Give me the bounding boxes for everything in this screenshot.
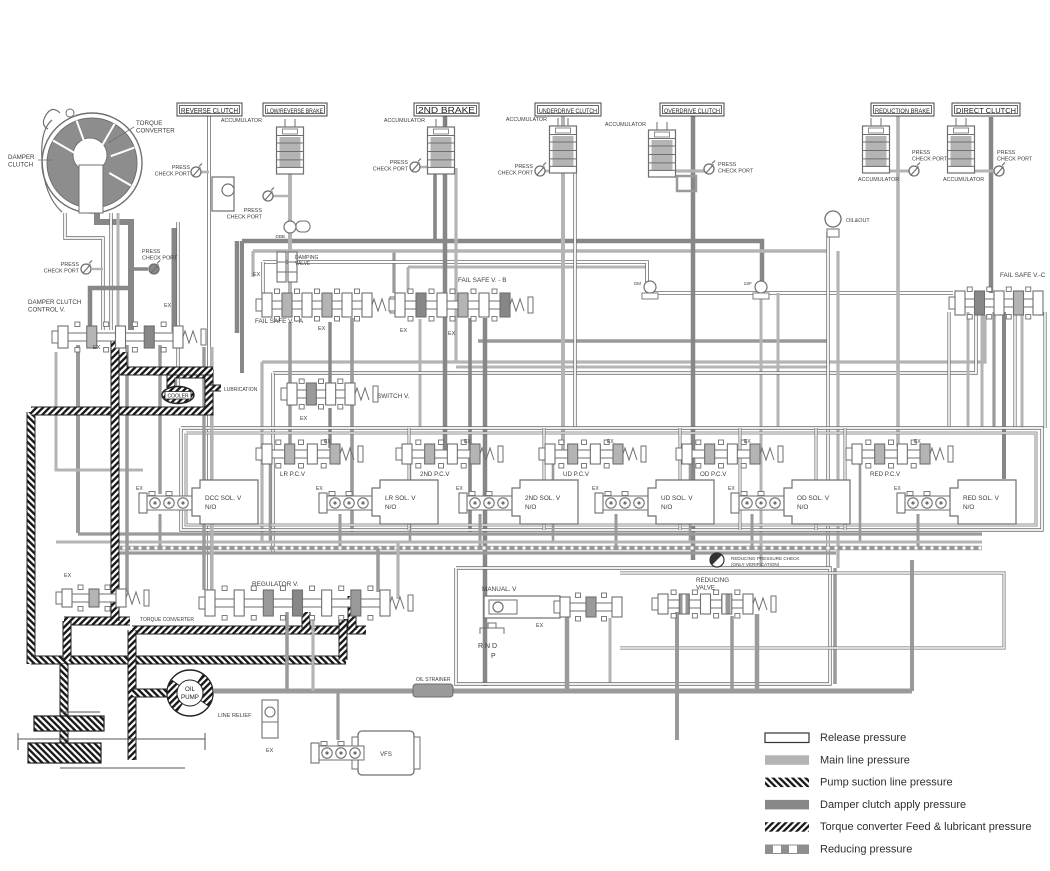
wire fsB drop x470 (468, 318, 472, 532)
svg-text:OD P.C.V: OD P.C.V (700, 471, 727, 478)
wire right riser x912 (910, 560, 914, 691)
svg-text:ACCUMULATOR: ACCUMULATOR (858, 177, 899, 183)
manual valve detent RNDP (480, 623, 504, 634)
svg-text:OVERDRIVE CLUTCH: OVERDRIVE CLUTCH (664, 109, 720, 115)
svg-text:2ND BRAKE: 2ND BRAKE (418, 105, 475, 115)
wire main bus corner x253 (251, 251, 254, 277)
svg-text:P: P (491, 653, 496, 660)
wire fsB inlet x394 (392, 251, 395, 293)
wire tc release elbow x103 (65, 213, 103, 330)
label ex manual (536, 623, 544, 629)
wire vfs drop x677 (675, 612, 679, 740)
label accumulator ud (506, 117, 547, 123)
wire release corner y362 (262, 315, 985, 362)
wire frame right x1045 (1043, 312, 1046, 428)
label ex DCC sol (136, 486, 143, 492)
label regulator v (252, 581, 299, 588)
label accumulator 2nd (384, 118, 425, 124)
svg-text:PRESS: PRESS (718, 162, 737, 168)
pipe feed vertical x132 (128, 630, 137, 760)
wire manual feed x567 (565, 616, 570, 691)
pipe feed column x115 (111, 333, 120, 621)
pipe feed valve elbow x123 (123, 352, 213, 371)
label ex LR pcv (324, 439, 331, 445)
svg-text:CHECK PORT: CHECK PORT (912, 157, 948, 163)
wire pcv divider x845 (844, 428, 847, 530)
svg-text:PRESS: PRESS (142, 249, 161, 255)
svg-text:ACCUMULATOR: ACCUMULATOR (605, 122, 646, 128)
pipe feed regulator col x352 (348, 596, 357, 630)
svg-text:VALVE: VALVE (295, 261, 311, 267)
svg-text:1SF: 1SF (744, 281, 753, 286)
svg-text:TORQUE: TORQUE (136, 120, 162, 127)
DCC solenoid body (192, 480, 258, 524)
svg-text:EX: EX (164, 303, 172, 309)
wire dcc ex line x56 (56, 352, 143, 470)
label switch v (377, 393, 410, 400)
wire dir acc tie y171 (961, 168, 999, 171)
svg-text:Damper clutch apply pressure: Damper clutch apply pressure (820, 799, 966, 811)
svg-text:LUBRICATION: LUBRICATION (224, 387, 258, 393)
pipe feed band A y630 (132, 626, 366, 635)
svg-text:2ND SOL. V: 2ND SOL. V (525, 495, 561, 502)
wire manual drop x610 (609, 618, 612, 684)
svg-text:LOW/REVERSE BRAKE: LOW/REVERSE BRAKE (267, 109, 323, 115)
label on right (744, 281, 753, 286)
pipe suction band B y660 (31, 656, 346, 665)
box underdrive clutch (535, 103, 601, 116)
wire reducing feed x757b (755, 614, 760, 691)
label accumulator dir (943, 177, 984, 183)
svg-text:N/O: N/O (963, 504, 974, 511)
legend reduce (765, 844, 912, 856)
wire dccv drop x212 (210, 347, 213, 590)
wire solenoid riser x480 (479, 514, 482, 548)
wire bus y542 (56, 541, 982, 544)
wire switch to pcv x330b (328, 408, 331, 448)
wire ud port tie (540, 170, 563, 173)
legend damper (765, 799, 966, 811)
legend main (765, 754, 910, 766)
wire 2nd brake feed x445 (443, 116, 448, 450)
UD solenoid body (648, 480, 714, 524)
wire pcv region frame (181, 428, 1042, 530)
svg-text:REDUCING: REDUCING (696, 577, 729, 584)
box low reverse brake (263, 103, 327, 116)
wire pcv divider x740 (739, 428, 742, 530)
RED solenoid coil (897, 492, 950, 514)
wire release corner x262 (260, 362, 263, 542)
oil strainer inline (413, 684, 453, 697)
ball check dbb (284, 221, 310, 233)
svg-text:UD SOL. V: UD SOL. V (661, 495, 693, 502)
wire pcv divider x816 (815, 428, 818, 530)
label 2ND pcv (420, 471, 450, 478)
wire ud release x575 (573, 173, 576, 428)
wire light y367 (456, 366, 828, 369)
svg-text:(ONLY VERIFICATION): (ONLY VERIFICATION) (731, 562, 780, 567)
legend suction (765, 777, 953, 789)
svg-text:Reducing pressure: Reducing pressure (820, 844, 912, 856)
svg-text:N/O: N/O (385, 504, 396, 511)
press check port ud (535, 163, 546, 177)
wire right riser x835 (833, 568, 837, 684)
label ex UD pcv (607, 439, 614, 445)
wire dark bus corner x237 (235, 241, 240, 333)
svg-text:ACCUMULATOR: ACCUMULATOR (384, 118, 425, 124)
svg-text:EX: EX (914, 439, 921, 445)
svg-text:GM: GM (634, 281, 642, 286)
2ND solenoid body (512, 480, 578, 524)
manual valve spool (554, 593, 622, 621)
svg-text:LINE RELIEF: LINE RELIEF (218, 713, 252, 719)
press check port red (909, 163, 920, 177)
svg-text:DIRECT CLUTCH: DIRECT CLUTCH (956, 106, 1016, 115)
wire oil-out drop x838 (836, 251, 839, 568)
svg-text:EX: EX (536, 623, 544, 629)
svg-text:DAMPING: DAMPING (295, 255, 318, 261)
wire oil-out drop x828 (826, 232, 829, 568)
svg-text:CHECK PORT: CHECK PORT (373, 167, 409, 173)
label ex OD sol (728, 486, 735, 492)
svg-text:CHECK PORT: CHECK PORT (718, 169, 754, 175)
label damper clutch control v (28, 299, 81, 313)
label ex fsA (253, 272, 261, 278)
pipe suction left vertical (27, 412, 36, 664)
wire fsC drop x1004 (1002, 312, 1006, 479)
wire pcv region inner frame (186, 433, 1036, 525)
wire od acc branch y171 (662, 168, 709, 171)
regulator valve (199, 586, 413, 620)
svg-text:CHECK PORT: CHECK PORT (155, 172, 191, 178)
svg-text:N/O: N/O (525, 504, 536, 511)
pipe feed regulator col x343 (339, 619, 348, 660)
wire pcv drop x553 (552, 464, 555, 542)
svg-text:EX: EX (253, 272, 261, 278)
svg-text:EX: EX (464, 439, 471, 445)
OD pressure control valve (676, 440, 783, 468)
wire tc port stub (131, 267, 148, 271)
wire damper apply bus y241 (242, 241, 762, 293)
wire switch drop x330 (328, 322, 331, 385)
wire tc release x111 (109, 213, 112, 330)
svg-text:Pump suction line pressure: Pump suction line pressure (820, 777, 953, 789)
accumulator reduction (863, 118, 890, 173)
svg-text:DCC SOL. V: DCC SOL. V (205, 495, 242, 502)
wire fsC drop x1015 (1013, 312, 1016, 428)
svg-text:REVERSE CLUTCH: REVERSE CLUTCH (181, 108, 238, 115)
wire dccv drop x78 (76, 345, 80, 533)
LR solenoid coil (319, 492, 372, 514)
press check port 2nd (410, 159, 421, 173)
damping valve (277, 252, 297, 282)
oil strainer body (18, 712, 205, 768)
wire fsA drop x352 (350, 318, 354, 532)
wire dark loop x90 (90, 288, 131, 328)
label LR pcv (280, 471, 306, 478)
svg-text:CONVERTER: CONVERTER (136, 127, 175, 134)
svg-text:RED P.C.V: RED P.C.V (870, 471, 901, 478)
label ex fsB2 (448, 331, 456, 337)
wire regulator drop x287 (285, 612, 289, 691)
svg-text:EX: EX (592, 486, 599, 492)
LR pressure control valve (256, 440, 363, 468)
label fail safe C (1000, 272, 1046, 279)
wire fsB drop x485 (483, 318, 488, 686)
wire pcv drop x270 (269, 464, 272, 542)
label ex 2ND pcv (464, 439, 471, 445)
wire cooler feed x178 (176, 222, 179, 387)
svg-text:TORQUE CONVERTER: TORQUE CONVERTER (140, 617, 194, 623)
svg-text:PRESS: PRESS (172, 165, 191, 171)
OD solenoid coil (731, 492, 784, 514)
box direct clutch (952, 103, 1020, 116)
pipe suction strainer riser (60, 664, 69, 745)
svg-text:N/O: N/O (661, 504, 672, 511)
wire pcv divider x544 (543, 428, 546, 530)
label press check port 2nd (373, 160, 409, 173)
label oil out (846, 218, 870, 224)
wire regulator feed x398 (396, 542, 399, 599)
damper clutch control valve (52, 322, 206, 352)
svg-text:2ND P.C.V: 2ND P.C.V (420, 471, 450, 478)
wire manual region frame (456, 568, 830, 684)
wire release bus y262 (263, 262, 647, 288)
svg-text:SWITCH V.: SWITCH V. (377, 393, 410, 400)
svg-text:OIL: OIL (185, 686, 196, 693)
svg-text:ACCUMULATOR: ACCUMULATOR (943, 177, 984, 183)
pipe lubrication stub (209, 385, 221, 392)
svg-text:LR SOL. V: LR SOL. V (385, 495, 416, 502)
svg-text:CHECK PORT: CHECK PORT (997, 157, 1033, 163)
wire dccv drop x160 (158, 345, 161, 494)
fail safe valve C (949, 287, 1043, 319)
DCC solenoid coil (139, 492, 192, 514)
svg-text:FAIL SAFE V. - A: FAIL SAFE V. - A (255, 318, 304, 325)
wire release x273 (271, 373, 274, 553)
wire fsA drop x290 (288, 322, 292, 445)
2ND solenoid coil (459, 492, 512, 514)
oil out symbol (825, 211, 841, 237)
label damper clutch (8, 154, 35, 168)
wire damper link y341 (478, 339, 828, 343)
svg-text:PRESS: PRESS (61, 262, 80, 268)
label press check port od (718, 162, 754, 175)
wire tc light x118 (117, 213, 120, 330)
label ex LR sol (316, 486, 323, 492)
label ex line relief (266, 748, 274, 754)
OD solenoid body (784, 480, 850, 524)
wire fsC drop x982 (981, 312, 984, 428)
ball check ON left (642, 281, 658, 299)
wire pcv divider x409 (408, 428, 411, 530)
torque converter (42, 109, 142, 213)
RED solenoid body (950, 480, 1016, 524)
label press check port lr (227, 208, 263, 221)
svg-text:COOLER: COOLER (167, 394, 189, 400)
2ND pressure control valve (396, 440, 503, 468)
manual valve body (484, 596, 560, 618)
wire pcv drop x690 (689, 464, 692, 542)
wire regulator drop x313 (311, 619, 314, 691)
UD solenoid coil (595, 492, 648, 514)
wire dccv drop x127 (125, 345, 129, 592)
svg-text:EX: EX (744, 439, 751, 445)
svg-text:EX: EX (894, 486, 901, 492)
label press check port tc left (44, 262, 80, 275)
label ex dcc2 (93, 345, 101, 351)
converter relief valve (56, 585, 149, 611)
wire reducing drop x732 (730, 616, 734, 691)
wire 2nd brake rel x456 (454, 168, 457, 361)
svg-text:N/O: N/O (797, 504, 808, 511)
press check port dir (994, 163, 1005, 177)
check valve reverse line (212, 177, 234, 211)
svg-text:LR P.C.V: LR P.C.V (280, 471, 306, 478)
wire fsC drop x949 (947, 312, 950, 428)
wire tc apply dark2 (172, 228, 177, 332)
svg-text:PRESS: PRESS (912, 150, 931, 156)
wire pcv drop x860 (859, 464, 862, 542)
wire od sol feed x778 (777, 293, 780, 428)
wire direct feed x991 (989, 117, 994, 293)
wire fsC drop x994 (992, 312, 995, 428)
wire bus y534 (78, 532, 982, 535)
label fail safe B (458, 277, 507, 284)
svg-text:Torque converter Feed & lubric: Torque converter Feed & lubricant pressu… (820, 821, 1032, 833)
svg-text:UNDERDRIVE CLUTCH: UNDERDRIVE CLUTCH (539, 109, 597, 115)
wire fsC drop x968 (967, 312, 970, 428)
vfs solenoid (352, 731, 420, 775)
label press check port reverse (155, 165, 191, 178)
press check port tc dark (149, 261, 160, 275)
svg-text:OD SOL. V: OD SOL. V (797, 495, 830, 502)
wire bus y553 (115, 551, 836, 554)
label reducing pressure check (731, 556, 800, 567)
svg-text:MANUAL. V: MANUAL. V (482, 586, 517, 593)
wire 2nd acc branch x435 (433, 172, 437, 241)
LR solenoid body (372, 480, 438, 524)
svg-text:FAIL SAFE V.-C: FAIL SAFE V.-C (1000, 272, 1046, 279)
wire solenoid riser x616 (615, 514, 618, 548)
label ex RED pcv (914, 439, 921, 445)
wire reducing bus y548 (120, 546, 982, 551)
svg-text:Main line pressure: Main line pressure (820, 754, 910, 766)
label press check port tc2 (142, 249, 178, 262)
svg-text:EX: EX (64, 573, 72, 579)
svg-text:EX: EX (607, 439, 614, 445)
press check port od (704, 161, 715, 175)
wire main line from pump y691 (214, 689, 912, 694)
line relief valve (262, 700, 278, 738)
svg-text:CONTROL V.: CONTROL V. (28, 306, 65, 313)
wire release line to fail safe C y293 (645, 291, 953, 295)
svg-text:REDUCING PRESSURE CHECK: REDUCING PRESSURE CHECK (731, 556, 800, 561)
wire vfs riser x338 (336, 691, 339, 740)
wire pcv divider x680 (679, 428, 682, 530)
svg-text:RED SOL. V: RED SOL. V (963, 495, 1000, 502)
label ex OD pcv (744, 439, 751, 445)
svg-text:ACCUMULATOR: ACCUMULATOR (506, 117, 547, 123)
wire release y373 (273, 315, 976, 373)
svg-text:EX: EX (316, 486, 323, 492)
svg-text:EX: EX (93, 345, 101, 351)
label torque converter (136, 120, 175, 134)
label accumulator lr (221, 118, 262, 124)
svg-text:VALVE: VALVE (696, 584, 715, 591)
wire damper bus corner x242 (240, 241, 244, 373)
wire solenoid riser x918 (917, 514, 920, 548)
svg-text:EX: EX (456, 486, 463, 492)
svg-text:EX: EX (400, 328, 408, 334)
accumulator direct (948, 118, 975, 173)
wire 2nd port tie (415, 166, 445, 169)
wire pcv drop x410 (409, 464, 412, 542)
svg-text:PRESS: PRESS (997, 150, 1016, 156)
UD pressure control valve (539, 440, 646, 468)
svg-text:OIL STRAINER: OIL STRAINER (416, 677, 451, 683)
svg-text:EX: EX (728, 486, 735, 492)
wire port tie y269 (92, 268, 103, 270)
leader damper clutch (38, 159, 52, 161)
label ex fsA2 (318, 326, 326, 332)
label ex switch (300, 416, 308, 422)
wire low-reverse feed x290 (288, 170, 292, 296)
wire solenoid riser x160 (159, 514, 162, 548)
accumulator low-reverse (277, 119, 304, 174)
svg-text:N/O: N/O (205, 504, 216, 511)
pipe feed y411 run (31, 374, 209, 411)
svg-text:DBB: DBB (276, 234, 285, 239)
svg-text:CHECK PORT: CHECK PORT (142, 256, 178, 262)
fail safe valve B (389, 289, 533, 321)
accumulator od (649, 122, 676, 177)
wire lr port tie (268, 195, 290, 198)
wire fsB drain x420 (419, 319, 422, 428)
label reducing valve (696, 577, 729, 591)
svg-text:R N D: R N D (478, 643, 497, 650)
RED pressure control valve (846, 440, 953, 468)
wire regulator feed x378 (376, 548, 380, 592)
label ex dcc (164, 303, 172, 309)
label accumulator od (605, 122, 646, 128)
label R N D (478, 643, 497, 650)
reducing valve (652, 590, 776, 618)
svg-text:EX: EX (448, 331, 456, 337)
wire reduction feed x898 (896, 116, 900, 447)
svg-text:EX: EX (266, 748, 274, 754)
label UD pcv (563, 471, 590, 478)
od check loop (677, 176, 696, 191)
svg-text:PRESS: PRESS (390, 160, 409, 166)
fail safe valve A (256, 289, 395, 321)
wire reverse clutch feed x209 (207, 116, 211, 592)
accumulator 2nd (428, 119, 455, 174)
ball check ON right (753, 281, 769, 299)
svg-text:UD P.C.V: UD P.C.V (563, 471, 590, 478)
svg-text:PRESS: PRESS (515, 164, 534, 170)
label dbb (276, 234, 285, 239)
wire ud clutch feed x563 (561, 116, 565, 450)
press check port lr (263, 188, 274, 202)
press check port reverse (191, 164, 202, 178)
label RED pcv (870, 471, 901, 478)
svg-text:FAIL SAFE V. - B: FAIL SAFE V. - B (458, 277, 507, 284)
label press check port red (912, 150, 948, 163)
wire tc apply dark elbow (97, 206, 131, 330)
wire main line bus y251 (253, 249, 828, 253)
accumulator ud (550, 118, 577, 173)
